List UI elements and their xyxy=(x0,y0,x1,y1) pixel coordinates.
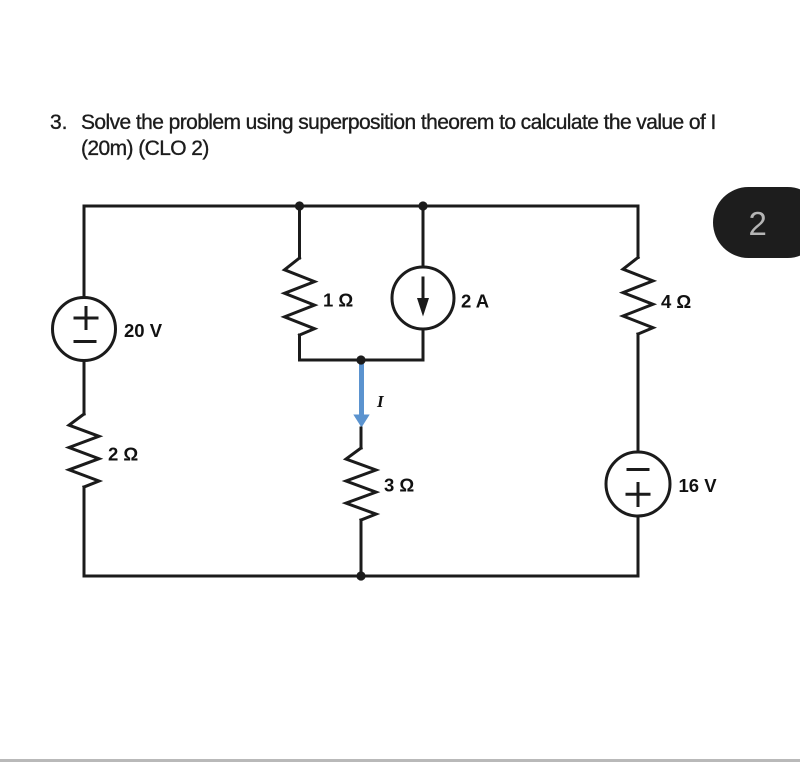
problem statement text xyxy=(81,110,781,162)
bottom gray rule xyxy=(0,759,800,762)
I1 internal arrow xyxy=(417,278,429,317)
node: top left junction xyxy=(295,201,304,210)
svg-text:2 Ω: 2 Ω xyxy=(108,444,138,465)
wire: left bottom segment xyxy=(83,487,86,576)
slide number badge 2 xyxy=(713,187,800,258)
current arrow I (blue) xyxy=(353,362,369,428)
svg-text:16 V: 16 V xyxy=(679,475,718,496)
wire: top horizontal xyxy=(84,205,638,208)
V1 plus sign xyxy=(75,308,97,329)
voltage source V2 16V circle xyxy=(606,452,670,516)
wire: 3 ohm top stub xyxy=(360,428,363,448)
wire: middle horizontal bar xyxy=(300,359,424,362)
wire: 2A bottom stub xyxy=(422,329,425,360)
svg-text:3 Ω: 3 Ω xyxy=(384,475,414,496)
svg-text:I: I xyxy=(376,392,385,411)
wire: 1 ohm bottom stub xyxy=(298,335,301,360)
wire: bottom horizontal xyxy=(84,575,638,578)
V2 plus sign xyxy=(627,484,649,506)
problem number 3. xyxy=(50,110,68,136)
resistor R 1 ohm xyxy=(285,258,315,335)
wire: 1 ohm top stub xyxy=(298,206,301,258)
svg-text:20 V: 20 V xyxy=(124,320,163,341)
node: middle junction xyxy=(356,355,365,364)
resistor R 4 ohm xyxy=(623,258,653,335)
node: bottom junction xyxy=(356,571,365,580)
V2 minus sign xyxy=(628,468,648,471)
svg-text:4 Ω: 4 Ω xyxy=(661,291,691,312)
resistor R 2 ohm xyxy=(69,414,99,487)
wire: left mid segment xyxy=(83,361,86,415)
svg-text:1 Ω: 1 Ω xyxy=(323,290,353,311)
voltage source V1 20V circle xyxy=(53,298,116,361)
current source I1 2A circle xyxy=(392,267,454,329)
resistor R 3 ohm xyxy=(346,448,376,520)
wire: left top segment xyxy=(83,206,86,298)
wire: right bottom segment xyxy=(637,516,640,576)
wire: 2A top stub xyxy=(422,206,425,267)
node: top right junction xyxy=(418,201,427,210)
wire: right top segment xyxy=(637,206,640,258)
svg-text:2 A: 2 A xyxy=(461,291,489,312)
wire: right mid segment xyxy=(637,334,640,452)
wire: 3 ohm bottom stub xyxy=(360,520,363,576)
V1 minus sign xyxy=(75,340,95,343)
